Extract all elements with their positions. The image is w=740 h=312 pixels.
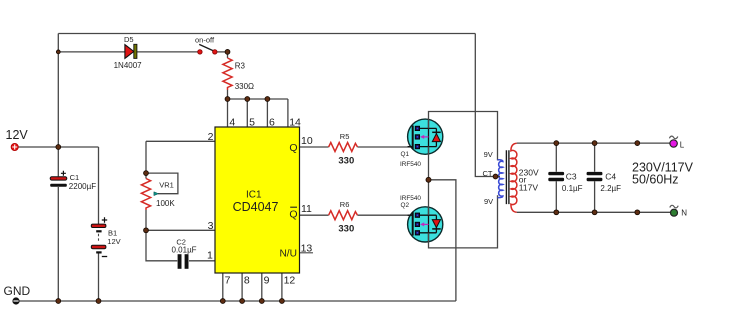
wire GND rail	[20, 300, 456, 302]
wire 12V input	[18, 146, 98, 148]
wire VR1 wiper loop	[146, 173, 178, 194]
label Q2	[401, 202, 410, 209]
label 2200uF	[69, 182, 96, 191]
svg-text:Q: Q	[289, 142, 297, 154]
label Qbar output	[289, 207, 297, 220]
label N/U	[279, 249, 297, 260]
svg-text:7: 7	[225, 275, 231, 287]
label Q2 IRF540	[400, 195, 421, 202]
svg-text:D5: D5	[124, 35, 134, 44]
svg-text:C1: C1	[70, 173, 80, 182]
wire R3 leads	[227, 52, 229, 99]
svg-text:3: 3	[208, 220, 214, 232]
svg-text:9V: 9V	[484, 150, 493, 159]
capacitor C1 electrolytic	[50, 171, 67, 187]
svg-text:GND: GND	[4, 284, 31, 298]
label pin 14	[289, 116, 301, 128]
label C1	[70, 173, 80, 182]
svg-text:100K: 100K	[156, 199, 175, 208]
label pin 9	[264, 275, 270, 287]
label R3	[235, 61, 246, 70]
wire diode branch	[58, 51, 198, 53]
svg-text:5: 5	[249, 116, 255, 128]
svg-text:8: 8	[244, 275, 250, 287]
svg-text:C3: C3	[566, 172, 577, 182]
transformer T1 primary coil	[496, 160, 503, 198]
wire IC pin5 stub	[246, 99, 248, 127]
svg-text:VR1: VR1	[159, 181, 174, 190]
battery B1	[91, 217, 107, 256]
label pin 13	[301, 243, 313, 255]
wire +12V down to CT	[475, 34, 493, 177]
svg-text:2.2µF: 2.2µF	[600, 184, 621, 193]
wire Q1 drain to transformer top	[429, 112, 498, 161]
label C3	[566, 172, 577, 182]
label CD4047	[233, 200, 279, 214]
wire Q2 drain to transformer bottom	[429, 195, 498, 248]
svg-text:11: 11	[301, 203, 312, 215]
capacitor C2	[178, 254, 189, 269]
resistor R5	[329, 143, 358, 152]
label 230V/117V	[632, 161, 694, 175]
wire output top rail	[517, 142, 670, 144]
label R5 330	[338, 156, 354, 167]
svg-text:12V: 12V	[107, 237, 120, 246]
wire IC pin7 stub	[222, 273, 224, 301]
svg-text:IRF540: IRF540	[400, 195, 421, 202]
IC U1 CD4047 body	[215, 127, 300, 273]
svg-text:0.01µF: 0.01µF	[172, 246, 197, 255]
svg-text:10: 10	[301, 135, 313, 147]
wire Q1 source / Q2 source vertical	[428, 147, 430, 216]
label 9V bottom	[484, 197, 493, 206]
transformer T1 secondary coil	[511, 143, 517, 212]
terminal N	[670, 205, 678, 216]
label B1	[108, 229, 117, 238]
svg-text:R6: R6	[340, 200, 350, 209]
label B1 12V	[107, 237, 120, 246]
label 50/60Hz	[632, 173, 679, 187]
wire VR1 vertical	[145, 141, 147, 230]
label Q1 IRF540	[400, 161, 421, 168]
wire top pin rail	[228, 98, 288, 100]
svg-text:CT: CT	[483, 169, 493, 178]
svg-text:12: 12	[284, 275, 296, 287]
resistor R6	[329, 211, 358, 220]
wire IC pin14 stub	[287, 99, 289, 127]
label pin 5	[249, 116, 255, 128]
label pin 11	[301, 203, 312, 215]
label 0.01uF	[172, 246, 197, 255]
capacitor C4	[587, 143, 603, 212]
svg-text:6: 6	[269, 116, 275, 128]
label CT	[483, 169, 493, 178]
svg-text:0.1µF: 0.1µF	[562, 184, 583, 193]
label R6 330	[338, 224, 354, 235]
label R5	[340, 132, 350, 141]
label Q output	[289, 142, 297, 154]
svg-text:14: 14	[289, 116, 301, 128]
svg-text:IC1: IC1	[246, 189, 262, 200]
label 12V supply	[6, 128, 29, 142]
wire left vertical	[57, 34, 59, 302]
svg-text:330: 330	[338, 156, 354, 167]
label Q1	[401, 151, 410, 158]
potentiometer VR1	[141, 179, 158, 211]
wire IC pin9 stub	[261, 273, 263, 301]
label pin 1	[207, 250, 213, 262]
svg-text:1N4007: 1N4007	[114, 61, 143, 70]
label R6	[340, 200, 350, 209]
label pin 2	[208, 131, 214, 143]
terminal GND	[12, 297, 19, 304]
wire IC pin12 stub	[281, 273, 283, 301]
svg-text:330Ω: 330Ω	[235, 82, 254, 91]
junction node dots	[56, 50, 640, 304]
capacitor C3	[548, 143, 564, 212]
label C4	[605, 172, 616, 182]
label 9V top	[484, 150, 493, 159]
wire output bottom rail	[517, 211, 671, 213]
svg-text:L: L	[680, 140, 685, 149]
wire pin10 to Q1 gate	[300, 146, 413, 148]
wire IC pin4 stub	[227, 99, 229, 127]
diode D5	[125, 44, 137, 58]
wire IC pin3	[146, 229, 215, 231]
label 100K	[156, 199, 175, 208]
wire C2 loop	[146, 230, 215, 260]
svg-text:2200µF: 2200µF	[69, 182, 96, 191]
transistor Q2	[408, 207, 443, 242]
wire source junction to ground	[429, 180, 456, 301]
svg-text:1: 1	[207, 250, 213, 262]
label 0.1uF	[562, 184, 583, 193]
label 1N4007	[114, 61, 143, 70]
svg-text:on-off: on-off	[195, 35, 215, 44]
svg-text:117V: 117V	[519, 182, 539, 192]
svg-text:50/60Hz: 50/60Hz	[632, 173, 679, 187]
svg-text:B1: B1	[108, 229, 117, 238]
svg-text:4: 4	[229, 116, 235, 128]
svg-text:R5: R5	[340, 132, 350, 141]
label 230V or 117V	[519, 167, 539, 192]
svg-text:C4: C4	[605, 172, 616, 182]
wire battery branch	[98, 147, 100, 301]
svg-text:2: 2	[208, 131, 214, 143]
svg-text:330: 330	[338, 224, 354, 235]
svg-text:N/U: N/U	[279, 249, 297, 260]
wire IC pin2	[146, 140, 215, 142]
svg-text:9V: 9V	[484, 197, 493, 206]
svg-text:12V: 12V	[6, 128, 29, 142]
label IC1	[246, 189, 262, 200]
label on-off	[195, 35, 215, 44]
label L	[680, 140, 685, 149]
wire IC pin6 stub	[266, 99, 268, 127]
resistor R3	[223, 58, 232, 90]
svg-text:R3: R3	[235, 61, 246, 70]
label pin 12	[284, 275, 296, 287]
label pin 7	[225, 275, 231, 287]
label pin 8	[244, 275, 250, 287]
svg-text:9: 9	[264, 275, 270, 287]
wire IC pin13 stub	[300, 252, 314, 254]
svg-text:Q1: Q1	[401, 151, 410, 158]
label C2	[176, 237, 186, 246]
svg-text:Q: Q	[289, 208, 297, 220]
wire IC pin8 stub	[241, 273, 243, 301]
wire pin11 to Q2 gate	[300, 214, 413, 216]
transformer T1 core	[506, 150, 509, 204]
svg-text:13: 13	[301, 243, 313, 255]
label VR1	[159, 181, 174, 190]
transistor Q1	[408, 119, 443, 154]
label pin 3	[208, 220, 214, 232]
terminal L	[669, 136, 677, 147]
label pin 10	[301, 135, 313, 147]
label pin 6	[269, 116, 275, 128]
wire switch to R3	[217, 51, 228, 53]
label GND	[4, 284, 31, 298]
label pin 4	[229, 116, 235, 128]
terminal 12V	[11, 143, 18, 150]
label N	[681, 209, 687, 218]
svg-text:Q2: Q2	[401, 202, 410, 209]
label 2.2uF	[600, 184, 621, 193]
svg-text:CD4047: CD4047	[233, 200, 279, 214]
svg-text:N: N	[681, 209, 687, 218]
wire top rail +12V	[58, 33, 475, 35]
svg-text:IRF540: IRF540	[400, 161, 421, 168]
label 330ohm	[235, 82, 254, 91]
switch S1 on-off	[198, 44, 217, 54]
label D5	[124, 35, 134, 44]
